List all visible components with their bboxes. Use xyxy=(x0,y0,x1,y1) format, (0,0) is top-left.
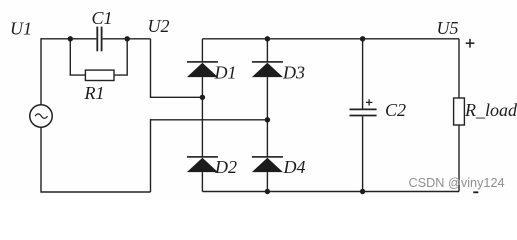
wire bottom rail xyxy=(202,191,459,193)
wire AC return to bridge mid-right node xyxy=(151,120,268,192)
plus sign C2 polarity xyxy=(366,99,372,105)
wire U2 drop to bridge mid-left node xyxy=(151,39,203,98)
svg-text:R1: R1 xyxy=(84,83,105,103)
wire R1 parallel branch xyxy=(70,39,85,75)
wire top rail xyxy=(202,38,459,40)
svg-text:D3: D3 xyxy=(282,62,305,82)
wire top-left U1 to C1 left plate xyxy=(41,39,96,105)
wire right drop to R_load xyxy=(458,39,460,98)
diode D1 xyxy=(187,61,218,77)
AC tilde xyxy=(35,114,47,118)
diode D4 xyxy=(252,156,283,172)
node top wire right junction xyxy=(125,36,130,41)
svg-text:CSDN @viny124: CSDN @viny124 xyxy=(409,176,505,190)
wire C2 column xyxy=(362,39,364,109)
svg-text:D1: D1 xyxy=(214,62,237,82)
svg-text:D2: D2 xyxy=(214,157,237,177)
svg-text:C1: C1 xyxy=(92,8,113,28)
wire C1 right plate to U2 corner xyxy=(103,38,151,40)
wire R1 to right tap xyxy=(114,39,127,75)
node bottom rail D4 xyxy=(265,189,270,194)
node bridge mid-left xyxy=(200,95,205,100)
diode D3 xyxy=(252,61,283,77)
svg-text:R_load: R_load xyxy=(464,100,517,120)
node bottom rail C2 xyxy=(360,189,365,194)
svg-text:D4: D4 xyxy=(283,157,306,177)
node top rail D3 xyxy=(265,36,270,41)
AC source V1 xyxy=(30,105,53,128)
capacitor C2 xyxy=(350,109,377,115)
diode D2 xyxy=(187,156,218,172)
wire R_load bottom xyxy=(458,125,460,192)
wire bridge left column xyxy=(201,39,203,62)
wire bridge right column xyxy=(266,39,268,62)
resistor R1 xyxy=(85,70,114,80)
wire AC source bottom to return corner xyxy=(41,127,151,192)
svg-text:U2: U2 xyxy=(148,16,170,36)
plus sign output terminal xyxy=(466,39,475,48)
svg-text:C2: C2 xyxy=(385,100,406,120)
node top rail C2 xyxy=(360,36,365,41)
minus sign output terminal xyxy=(473,191,478,193)
node top wire left junction xyxy=(68,36,73,41)
svg-text:U1: U1 xyxy=(10,19,32,39)
svg-text:U5: U5 xyxy=(437,18,459,38)
capacitor C1 xyxy=(97,27,101,52)
node bridge mid-right xyxy=(265,117,270,122)
resistor R_load xyxy=(454,98,465,125)
